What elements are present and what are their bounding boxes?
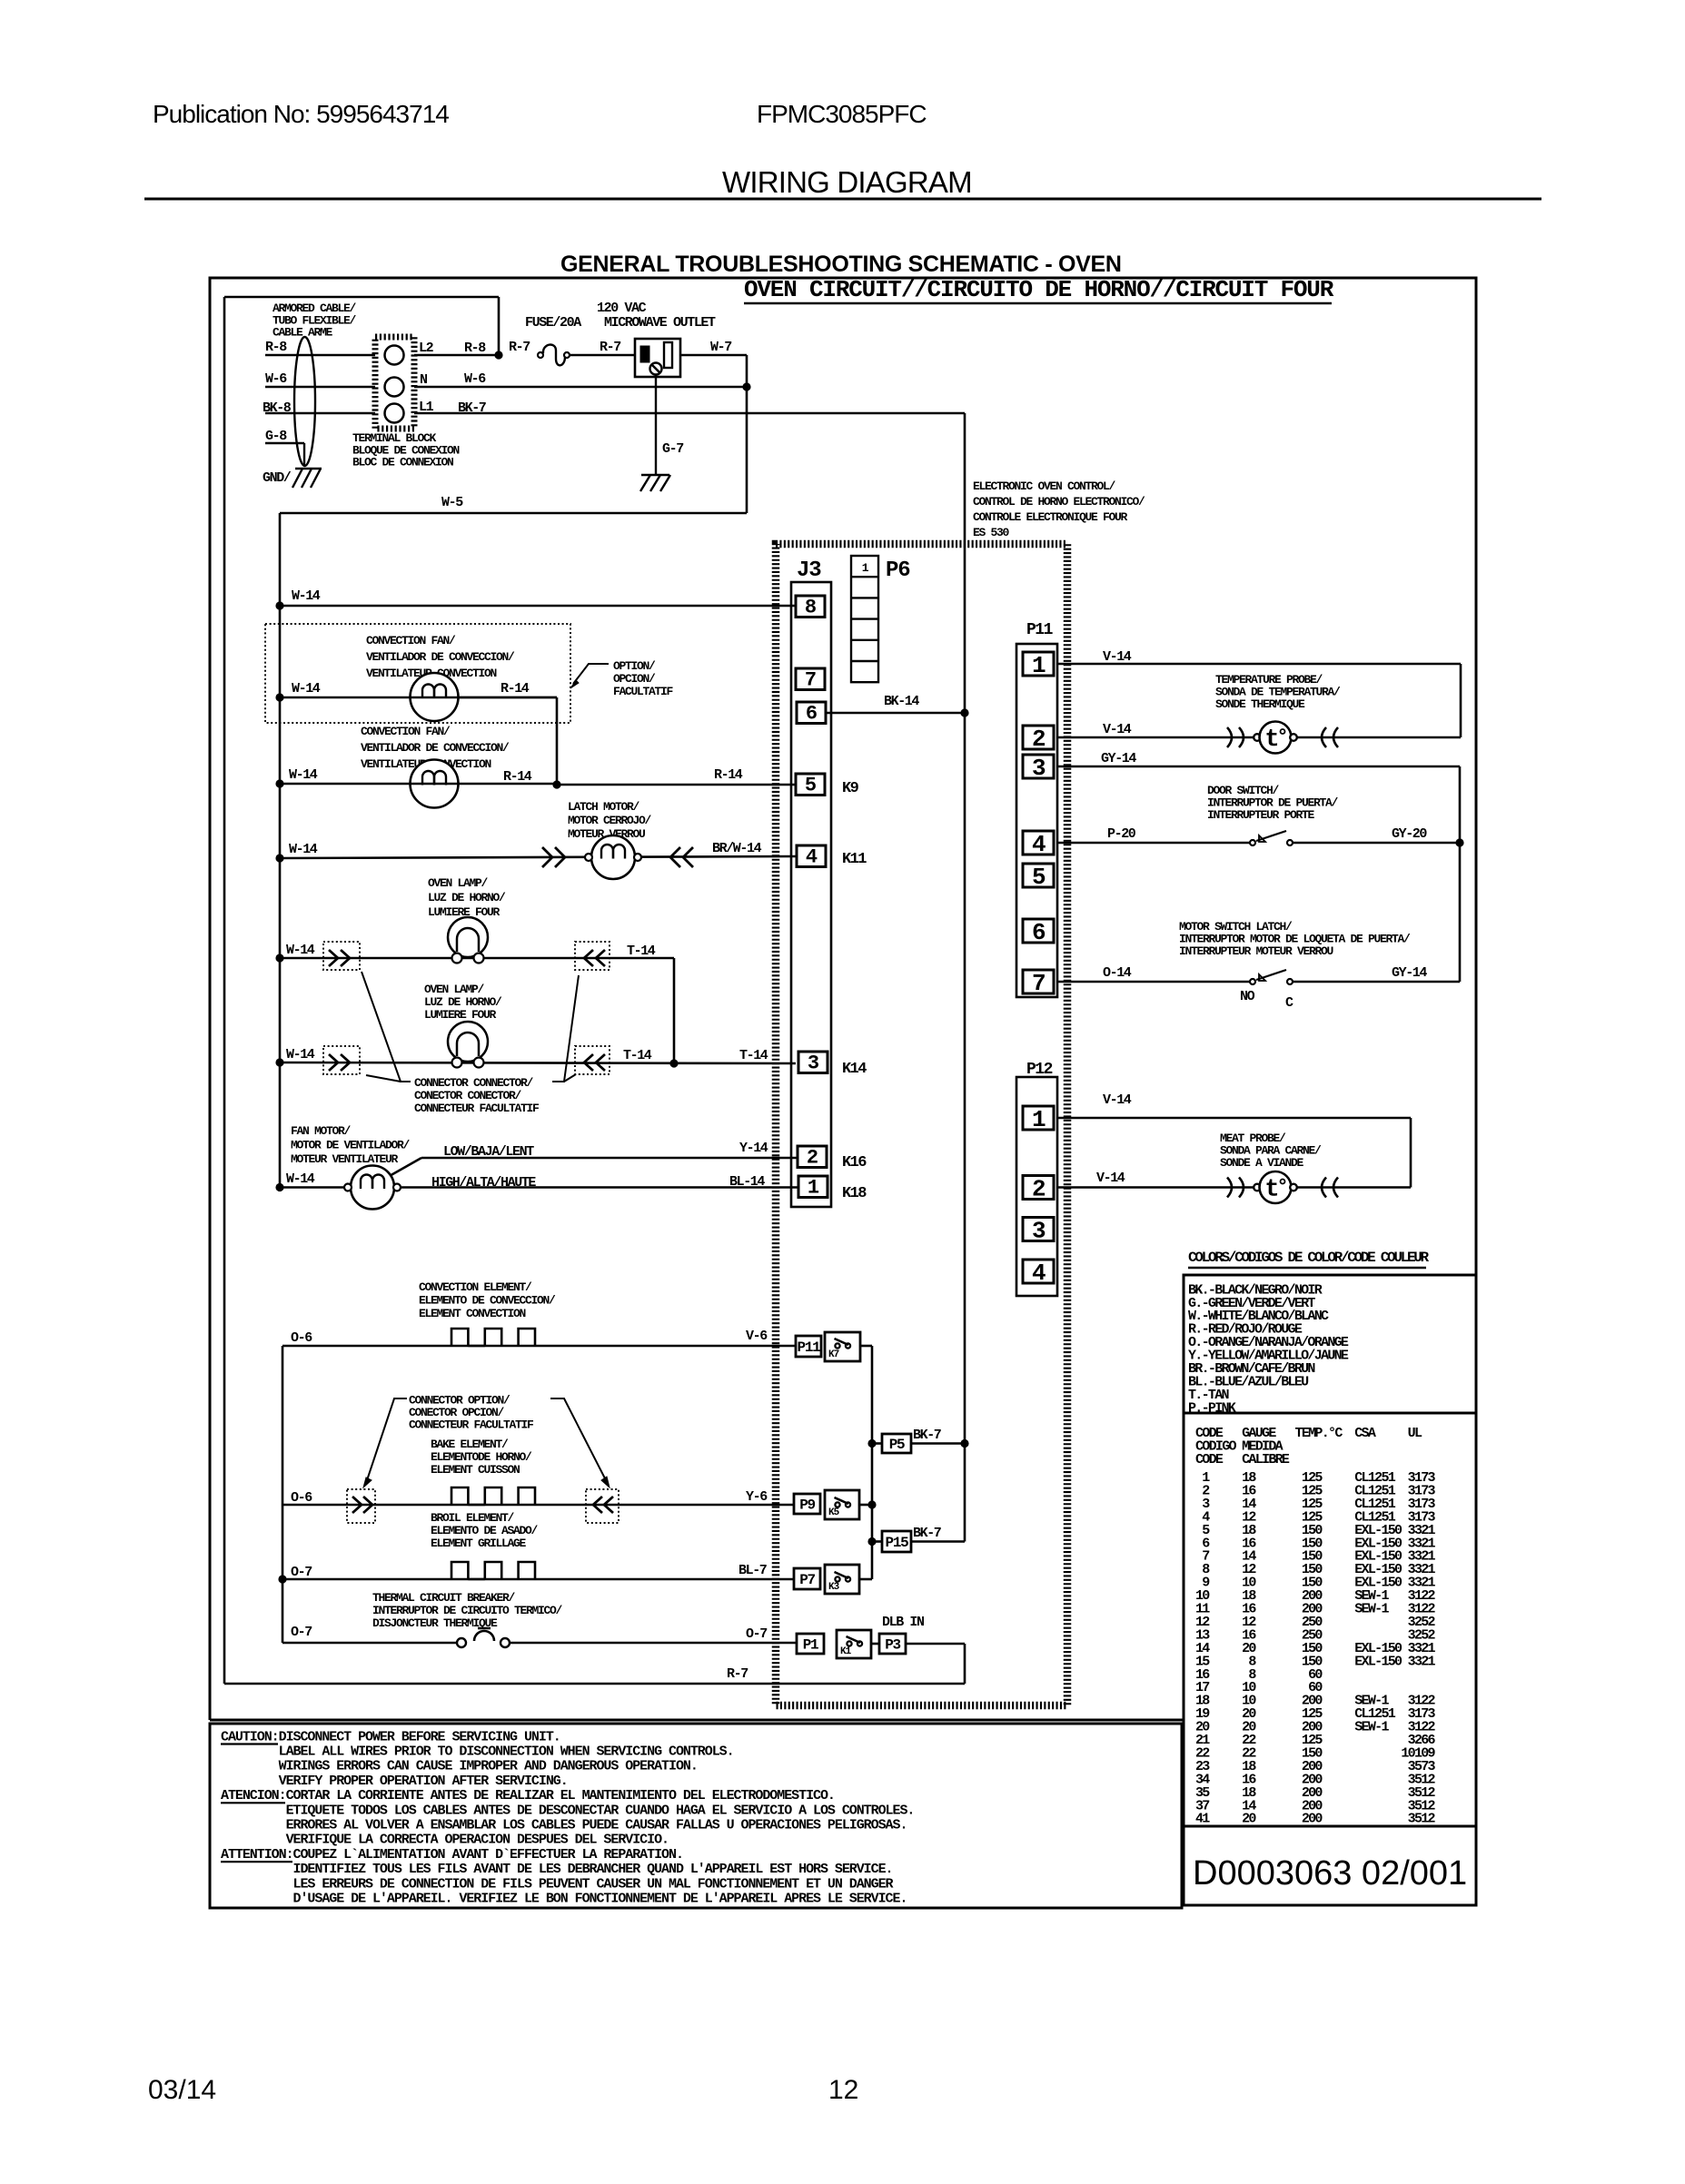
node W-14 latch (275, 854, 283, 862)
svg-text:R-14: R-14 (501, 681, 530, 697)
svg-text:2: 2 (1032, 1176, 1046, 1203)
svg-text:R-14: R-14 (503, 769, 532, 785)
armored cable ellipse (294, 337, 315, 466)
wire P-20 (1057, 842, 1253, 845)
svg-text:BK-7: BK-7 (913, 1526, 941, 1541)
svg-text:ATENCION:CORTAR LA CORRIENTE A: ATENCION:CORTAR LA CORRIENTE ANTES DE RE… (221, 1788, 835, 1804)
svg-text:COLORS/CODIGOS DE COLOR/CODE C: COLORS/CODIGOS DE COLOR/CODE COULEUR (1188, 1250, 1430, 1266)
svg-text:CONTROLE ELECTRONIQUE FOUR: CONTROLE ELECTRONIQUE FOUR (973, 510, 1128, 524)
P11 pin 5 (1023, 864, 1054, 887)
left return wire R-7 vertical (223, 297, 226, 1684)
svg-text:LATCH MOTOR/: LATCH MOTOR/ (568, 800, 640, 814)
svg-text:ERRORES AL VOLVER A ENSAMBLAR: ERRORES AL VOLVER A ENSAMBLAR LOS CABLES… (221, 1818, 907, 1833)
connector callout lines (362, 972, 411, 1082)
svg-text:CONNECTOR CONNECTOR/: CONNECTOR CONNECTOR/ (414, 1076, 534, 1090)
svg-text:INTERRUPTEUR MOTEUR VERROU: INTERRUPTEUR MOTEUR VERROU (1179, 944, 1333, 958)
svg-text:OPCION/: OPCION/ (613, 672, 656, 686)
svg-text:G-7: G-7 (662, 441, 683, 457)
svg-text:P11: P11 (798, 1339, 821, 1356)
wire BK-7 P5 (911, 1442, 965, 1445)
svg-text:P3: P3 (885, 1637, 900, 1654)
node BK-14/BK-7 (960, 708, 968, 716)
svg-text:DLB IN: DLB IN (882, 1615, 925, 1630)
wire W-7 vertical (746, 355, 748, 513)
P11 pin 7 (1023, 970, 1054, 993)
J3 pin 4 (797, 845, 826, 867)
svg-text:K7: K7 (828, 1349, 839, 1360)
wire R-14 fan1 (458, 697, 557, 699)
connector box bake left (347, 1489, 375, 1523)
svg-text:K11: K11 (842, 851, 867, 868)
svg-text:O-6: O-6 (291, 1490, 312, 1506)
P11 pin 4 (1023, 831, 1054, 855)
svg-text:2: 2 (807, 1147, 818, 1170)
wire GY-20 (1293, 842, 1460, 845)
wire BK-7 (414, 412, 965, 415)
svg-text:T-14: T-14 (627, 944, 656, 959)
svg-text:CAUTION:DISCONNECT POWER BEFOR: CAUTION:DISCONNECT POWER BEFORE SERVICIN… (221, 1729, 560, 1744)
svg-text:WIRING DIAGRAM: WIRING DIAGRAM (722, 165, 972, 199)
svg-text:O-7: O-7 (291, 1565, 312, 1580)
convection fan 1 motor (411, 673, 459, 721)
svg-text:4: 4 (806, 846, 818, 869)
option callout (573, 664, 609, 684)
J3 pin 1 (798, 1176, 828, 1198)
svg-text:MOTEUR VENTILATEUR: MOTEUR VENTILATEUR (291, 1152, 399, 1166)
wire R-8 to node (414, 354, 499, 357)
svg-text:Y-6: Y-6 (746, 1489, 768, 1505)
svg-text:FAN MOTOR/: FAN MOTOR/ (291, 1124, 352, 1138)
svg-text:O-6: O-6 (291, 1330, 312, 1346)
svg-text:t: t (1264, 726, 1278, 754)
element bus vertical right (871, 1346, 874, 1579)
svg-text:K16: K16 (842, 1154, 867, 1171)
wire R-8 (265, 354, 375, 357)
svg-text:R-7: R-7 (509, 340, 530, 355)
terminal P7 (794, 1568, 820, 1589)
svg-text:W-14: W-14 (286, 1047, 315, 1062)
svg-text:CONVECTION FAN/: CONVECTION FAN/ (361, 725, 451, 738)
wire lamp1 (280, 957, 674, 960)
svg-text:O-7: O-7 (746, 1626, 767, 1642)
wire to top loop (498, 297, 501, 355)
relay contact K5 (825, 1490, 859, 1519)
svg-text:G-8: G-8 (265, 429, 287, 444)
svg-text:P6: P6 (886, 558, 910, 583)
wire meat probe (1057, 1186, 1411, 1189)
svg-text:P7: P7 (799, 1572, 815, 1588)
J3 pin 3 (798, 1052, 828, 1073)
svg-text:P15: P15 (886, 1535, 909, 1551)
wire K5 out (859, 1504, 872, 1507)
node W-14 fan2 (275, 779, 283, 787)
svg-text:N: N (420, 372, 428, 388)
ES 530 control board hatched border (776, 544, 1067, 1705)
node W-14 fan motor (275, 1183, 283, 1191)
svg-text:R-7: R-7 (727, 1666, 748, 1682)
connector option callouts (367, 1398, 407, 1480)
wire R-7 return (224, 1683, 965, 1685)
option dashed box (convection fan) (265, 624, 570, 723)
node W-14 fan1 (275, 693, 283, 701)
node T-14 junction (669, 1059, 678, 1067)
svg-text:W-14: W-14 (286, 943, 315, 958)
svg-text:O-7: O-7 (291, 1625, 312, 1640)
svg-text:t: t (1264, 1177, 1278, 1204)
caution text box (210, 1724, 1182, 1908)
P11 pin 3 (1023, 755, 1054, 778)
svg-text:K14: K14 (842, 1061, 867, 1078)
wire DLB out (906, 1643, 965, 1645)
svg-text:LUZ DE HORNO/: LUZ DE HORNO/ (428, 891, 506, 904)
svg-text:K5: K5 (828, 1507, 840, 1518)
wire fan1 to R-14 corner (280, 697, 557, 699)
terminal P5 (882, 1434, 911, 1453)
door switch (1250, 840, 1255, 845)
J3 pin 6 (797, 702, 826, 724)
oven lamp 1 (448, 917, 488, 957)
connector box lamp2 left (323, 1046, 360, 1074)
svg-text:1: 1 (1032, 652, 1046, 679)
svg-text:1: 1 (862, 561, 869, 575)
wire T-14 vertical (673, 958, 676, 1063)
convection fan 2 motor (411, 760, 459, 808)
svg-text:THERMAL CIRCUIT BREAKER/: THERMAL CIRCUIT BREAKER/ (372, 1591, 516, 1605)
svg-text:ES 530: ES 530 (973, 526, 1010, 539)
svg-text:OVEN CIRCUIT//CIRCUITO DE HORN: OVEN CIRCUIT//CIRCUITO DE HORNO//CIRCUIT… (744, 276, 1334, 303)
latch motor connector chevrons (542, 847, 552, 867)
svg-text:R-8: R-8 (265, 340, 287, 355)
svg-text:LABEL ALL WIRES PRIOR TO DISCO: LABEL ALL WIRES PRIOR TO DISCONNECTION W… (221, 1744, 734, 1760)
title rule (144, 198, 1541, 201)
terminal block (375, 337, 414, 429)
wire BK-7 vertical (964, 413, 966, 713)
svg-text:ELECTRONIC OVEN CONTROL/: ELECTRONIC OVEN CONTROL/ (973, 479, 1116, 493)
terminal L2 (385, 346, 404, 365)
oven lamp 2 (448, 1022, 488, 1062)
fan motor low tap (388, 1158, 421, 1177)
svg-text:T-14: T-14 (623, 1048, 652, 1063)
svg-text:GY-14: GY-14 (1392, 965, 1427, 981)
svg-text:V-14: V-14 (1103, 649, 1132, 665)
svg-text:CONECTOR CONECTOR/: CONECTOR CONECTOR/ (414, 1089, 522, 1102)
svg-text:MOTOR DE VENTILADOR/: MOTOR DE VENTILADOR/ (291, 1139, 411, 1152)
svg-text:VENTILADOR DE CONVECCION/: VENTILADOR DE CONVECCION/ (366, 650, 515, 664)
P12 pin 4 (1023, 1260, 1054, 1283)
svg-text:C: C (1285, 995, 1293, 1011)
connector box lamp2 right (575, 1046, 610, 1074)
svg-text:K18: K18 (842, 1185, 867, 1202)
svg-text:CONVECTION ELEMENT/: CONVECTION ELEMENT/ (419, 1280, 532, 1294)
wire thermal breaker in (282, 1642, 457, 1645)
svg-text:W-14: W-14 (292, 588, 321, 604)
svg-text:GY-14: GY-14 (1101, 751, 1136, 766)
wire temp probe (1057, 736, 1461, 739)
wire GY loop vertical (1459, 766, 1462, 982)
wire R-14 to J3 pin 5 (557, 784, 796, 786)
svg-text:CODE CALIBRE: CODE CALIBRE (1195, 1452, 1290, 1468)
P12 pin 3 (1023, 1218, 1054, 1241)
underline ATENCION (221, 1802, 285, 1804)
wire temp probe loop (1460, 664, 1462, 737)
svg-text:BLOC DE CONNEXION: BLOC DE CONNEXION (352, 456, 453, 469)
terminal P3 (879, 1634, 906, 1654)
wire W-14 latch motor (280, 856, 796, 858)
svg-text:7: 7 (1032, 970, 1045, 997)
thermal circuit breaker (457, 1638, 466, 1647)
wire HIGH to J3 pin 1 (401, 1186, 798, 1189)
wire V-14 temp probe (1057, 663, 1461, 666)
svg-text:4: 4 (1032, 1260, 1046, 1287)
svg-text:BL-7: BL-7 (738, 1563, 767, 1578)
P11 pin 1 (1023, 652, 1054, 676)
svg-text:BAKE ELEMENT/: BAKE ELEMENT/ (431, 1438, 509, 1451)
P11 pin 2 (1023, 726, 1054, 749)
node R-8/R-7 junction (494, 351, 502, 359)
svg-text:NO: NO (1240, 989, 1255, 1004)
svg-text:SONDE THERMIQUE: SONDE THERMIQUE (1215, 697, 1305, 711)
svg-text:R-8: R-8 (464, 341, 486, 356)
svg-text:J3: J3 (797, 558, 821, 583)
svg-text:BR/W-14: BR/W-14 (712, 841, 762, 856)
svg-text:W-6: W-6 (265, 371, 287, 387)
terminal P11 (796, 1336, 821, 1357)
svg-text:03/14: 03/14 (148, 2075, 216, 2105)
wire V-14 meat probe (1057, 1117, 1411, 1120)
node R-14 junction (552, 780, 560, 788)
svg-text:LUMIERE FOUR: LUMIERE FOUR (424, 1008, 497, 1022)
wire R-14 vertical (556, 697, 559, 785)
svg-text:BROIL ELEMENT/: BROIL ELEMENT/ (431, 1511, 515, 1525)
svg-text:41 20 200: 41 20 200 3512 (1195, 1812, 1436, 1827)
wire G-8 drop (303, 443, 305, 466)
wire bake element (282, 1504, 794, 1507)
svg-text:ELEMENTO DE ASADO/: ELEMENTO DE ASADO/ (431, 1524, 539, 1537)
wire BK-7 P15 (911, 1540, 965, 1543)
svg-text:12: 12 (828, 2075, 858, 2105)
svg-text:W-14: W-14 (292, 681, 321, 697)
svg-text:5: 5 (1032, 864, 1046, 891)
svg-text:GY-20: GY-20 (1392, 826, 1427, 842)
J3 pin 5 (796, 774, 825, 796)
svg-text:CONTROL DE HORNO ELECTRONICO/: CONTROL DE HORNO ELECTRONICO/ (973, 495, 1145, 509)
wire gauge table box (1184, 1413, 1476, 1826)
svg-text:D'USAGE DE L'APPAREIL. VERIFIE: D'USAGE DE L'APPAREIL. VERIFIEZ LE BON F… (221, 1892, 907, 1907)
wire lamp2 / T-14 to J3 pin 3 (280, 1062, 796, 1063)
underline CAUTION (221, 1743, 278, 1744)
svg-text:6: 6 (806, 703, 817, 726)
wire meat probe loop (1410, 1118, 1412, 1188)
svg-text:P9: P9 (799, 1497, 815, 1514)
relay contact K3 (825, 1565, 859, 1594)
svg-text:CONNECTEUR FACULTATIF: CONNECTEUR FACULTATIF (414, 1102, 540, 1115)
svg-text:V-6: V-6 (746, 1329, 768, 1344)
svg-text:WIRINGS ERRORS CAN CAUSE IMPRO: WIRINGS ERRORS CAN CAUSE IMPROPER AND DA… (221, 1759, 698, 1774)
fan motor (351, 1166, 394, 1210)
svg-text:FACULTATIF: FACULTATIF (613, 685, 674, 698)
temperature probe sensor (1227, 727, 1232, 747)
svg-text:ETIQUETE TODOS LOS CABLES ANTE: ETIQUETE TODOS LOS CABLES ANTES DE DESCO… (221, 1803, 914, 1818)
svg-text:7: 7 (805, 669, 816, 692)
svg-text:ELEMENTODE HORNO/: ELEMENTODE HORNO/ (431, 1450, 532, 1464)
outer schematic frame (210, 278, 1476, 1905)
connector box lamp1 left (323, 942, 360, 970)
latch motor (591, 835, 635, 879)
node P5 left (867, 1439, 876, 1448)
svg-text:W-5: W-5 (441, 495, 463, 510)
top loop wire (224, 296, 499, 299)
terminal L1 (385, 404, 404, 423)
svg-text:P5: P5 (889, 1437, 905, 1453)
wire W-6 to outlet neutral (414, 386, 747, 389)
svg-text:P11: P11 (1026, 621, 1054, 639)
wire BK-8 (265, 412, 375, 415)
svg-text:K1: K1 (840, 1646, 852, 1657)
node P15 left (867, 1537, 876, 1546)
svg-text:K9: K9 (842, 780, 859, 797)
svg-text:MOTOR CERROJO/: MOTOR CERROJO/ (568, 814, 652, 827)
node W-6/W-7 (742, 382, 750, 390)
J3 pin 7 (796, 668, 825, 690)
svg-text:T-14: T-14 (739, 1048, 768, 1063)
svg-text:2: 2 (1032, 726, 1046, 753)
svg-text:SONDE A VIANDE: SONDE A VIANDE (1220, 1156, 1304, 1170)
wire LOW to J3 pin 2 (421, 1157, 798, 1160)
svg-text:R-7: R-7 (600, 340, 620, 355)
P11 pin 6 (1023, 919, 1054, 943)
node W-14 lamp1 (275, 954, 283, 962)
svg-text:P-20: P-20 (1107, 826, 1136, 842)
wire convection element (282, 1345, 796, 1348)
svg-text:3: 3 (1032, 755, 1046, 782)
relay contact K7 (825, 1332, 860, 1361)
wire W-14 fan motor (280, 1186, 348, 1189)
svg-text:O-14: O-14 (1103, 965, 1132, 981)
svg-text:W-14: W-14 (289, 767, 318, 783)
left element bus vertical (282, 1346, 284, 1643)
svg-text:BK-7: BK-7 (913, 1428, 941, 1443)
relay contact K1 (837, 1630, 871, 1658)
P12 pin 2 (1023, 1176, 1054, 1200)
svg-text:K3: K3 (828, 1582, 840, 1593)
svg-text:BK-14: BK-14 (884, 694, 919, 709)
wire W-14 to J3 pin 8 (280, 605, 796, 608)
wire W-14 trunk (279, 513, 282, 1188)
svg-text:3: 3 (808, 1052, 819, 1075)
svg-text:Y-14: Y-14 (739, 1141, 768, 1156)
svg-text:D0003063 02/001: D0003063 02/001 (1193, 1854, 1467, 1892)
wire R-7 drop (964, 1644, 966, 1684)
svg-text:MICROWAVE OUTLET: MICROWAVE OUTLET (604, 315, 716, 331)
wire R-7 to outlet (570, 354, 635, 357)
microwave outlet (635, 339, 680, 377)
node GY junction (1455, 838, 1463, 846)
svg-text:W-14: W-14 (289, 842, 318, 857)
J3 pin 2 (798, 1146, 827, 1168)
svg-text:W-7: W-7 (710, 340, 731, 355)
svg-text:L2: L2 (419, 341, 434, 356)
svg-text:FPMC3085PFC: FPMC3085PFC (757, 100, 927, 128)
svg-text:ELEMENT GRILLAGE: ELEMENT GRILLAGE (431, 1537, 527, 1550)
colors legend box (1184, 1275, 1476, 1413)
wire thermal breaker out (510, 1642, 797, 1645)
wire GY-14 (1057, 766, 1460, 768)
svg-text:FUSE/20A: FUSE/20A (525, 315, 581, 331)
wire W-5 (280, 512, 747, 515)
P12 pin 1 (1023, 1106, 1054, 1130)
svg-text:1: 1 (1032, 1106, 1046, 1133)
svg-text:OPTION/: OPTION/ (613, 659, 656, 673)
svg-text:GND/: GND/ (263, 470, 292, 486)
drawing number box (1184, 1826, 1476, 1905)
svg-text:4: 4 (1032, 831, 1046, 858)
svg-text:VERIFIQUE LA CORRECTA OPERACIO: VERIFIQUE LA CORRECTA OPERACION DESPUES … (221, 1833, 669, 1848)
wire W-14 fan2 (280, 783, 411, 786)
wire K7 out (860, 1345, 872, 1348)
terminal P15 (882, 1531, 911, 1552)
wire G-8 (265, 442, 304, 445)
terminal P1 (797, 1634, 824, 1654)
motor switch latch (1250, 979, 1255, 984)
svg-text:ELEMENT CUISSON: ELEMENT CUISSON (431, 1463, 520, 1477)
svg-text:GENERAL TROUBLESHOOTING SCHEMA: GENERAL TROUBLESHOOTING SCHEMATIC - OVEN (560, 252, 1122, 277)
svg-text:1: 1 (808, 1177, 819, 1200)
svg-text:W-6: W-6 (464, 371, 486, 387)
node W-14 lamp2 (275, 1058, 283, 1066)
terminal P9 (794, 1494, 820, 1514)
svg-text:ATTENTION:COUPEZ L`ALIMENTATIO: ATTENTION:COUPEZ L`ALIMENTATION AVANT D`… (221, 1847, 683, 1863)
svg-text:120 VAC: 120 VAC (597, 301, 647, 316)
wire fan2 out (458, 783, 557, 786)
svg-text:INTERRUPTEUR PORTE: INTERRUPTEUR PORTE (1207, 808, 1315, 822)
svg-text:V-14: V-14 (1103, 722, 1132, 737)
svg-text:P.-PINK: P.-PINK (1188, 1400, 1236, 1416)
wire W-6 (265, 386, 375, 389)
J3 pin 8 (796, 596, 825, 618)
svg-text:OVEN LAMP/: OVEN LAMP/ (424, 983, 485, 996)
connector box bake right (586, 1489, 619, 1523)
svg-text:V-14: V-14 (1103, 1092, 1132, 1108)
svg-text:3: 3 (1032, 1218, 1046, 1245)
wire O-14 (1057, 981, 1253, 983)
svg-text:VENTILADOR DE CONVECCION/: VENTILADOR DE CONVECCION/ (361, 741, 510, 755)
svg-text:LUZ DE HORNO/: LUZ DE HORNO/ (424, 995, 502, 1009)
svg-text:R-14: R-14 (714, 767, 743, 783)
svg-text:CONVECTION FAN/: CONVECTION FAN/ (366, 634, 456, 647)
svg-text:Publication No: 5995643714: Publication No: 5995643714 (153, 100, 449, 128)
svg-text:CONNECTEUR FACULTATIF: CONNECTEUR FACULTATIF (409, 1418, 534, 1432)
svg-text:VERIFY PROPER OPERATION AFTER: VERIFY PROPER OPERATION AFTER SERVICING. (221, 1774, 568, 1789)
wire broil element (282, 1578, 794, 1581)
underline ATTENTION (221, 1861, 292, 1863)
svg-text:OVEN LAMP/: OVEN LAMP/ (428, 876, 489, 890)
svg-text:ELEMENTO DE CONVECCION/: ELEMENTO DE CONVECCION/ (419, 1294, 556, 1308)
svg-text:V-14: V-14 (1096, 1171, 1125, 1186)
wire W-7 (680, 354, 747, 357)
svg-text:INTERRUPTOR DE CIRCUITO TERMIC: INTERRUPTOR DE CIRCUITO TERMICO/ (372, 1604, 563, 1617)
svg-text:6: 6 (1032, 919, 1046, 946)
wire K3 out (859, 1578, 872, 1581)
node BK-7 P5 (960, 1439, 968, 1448)
connector box lamp1 right (575, 942, 610, 970)
wire GY-14 latch (1293, 981, 1460, 983)
svg-text:P1: P1 (803, 1637, 818, 1654)
node broil bus (278, 1575, 286, 1583)
wire BK-7 vertical inner (964, 713, 966, 1542)
svg-text:ELEMENT CONVECTION: ELEMENT CONVECTION (419, 1307, 526, 1320)
node K5 bus (867, 1500, 876, 1508)
svg-text:IDENTIFIEZ TOUS LES FILS AVANT: IDENTIFIEZ TOUS LES FILS AVANT DE LES DE… (221, 1862, 893, 1877)
